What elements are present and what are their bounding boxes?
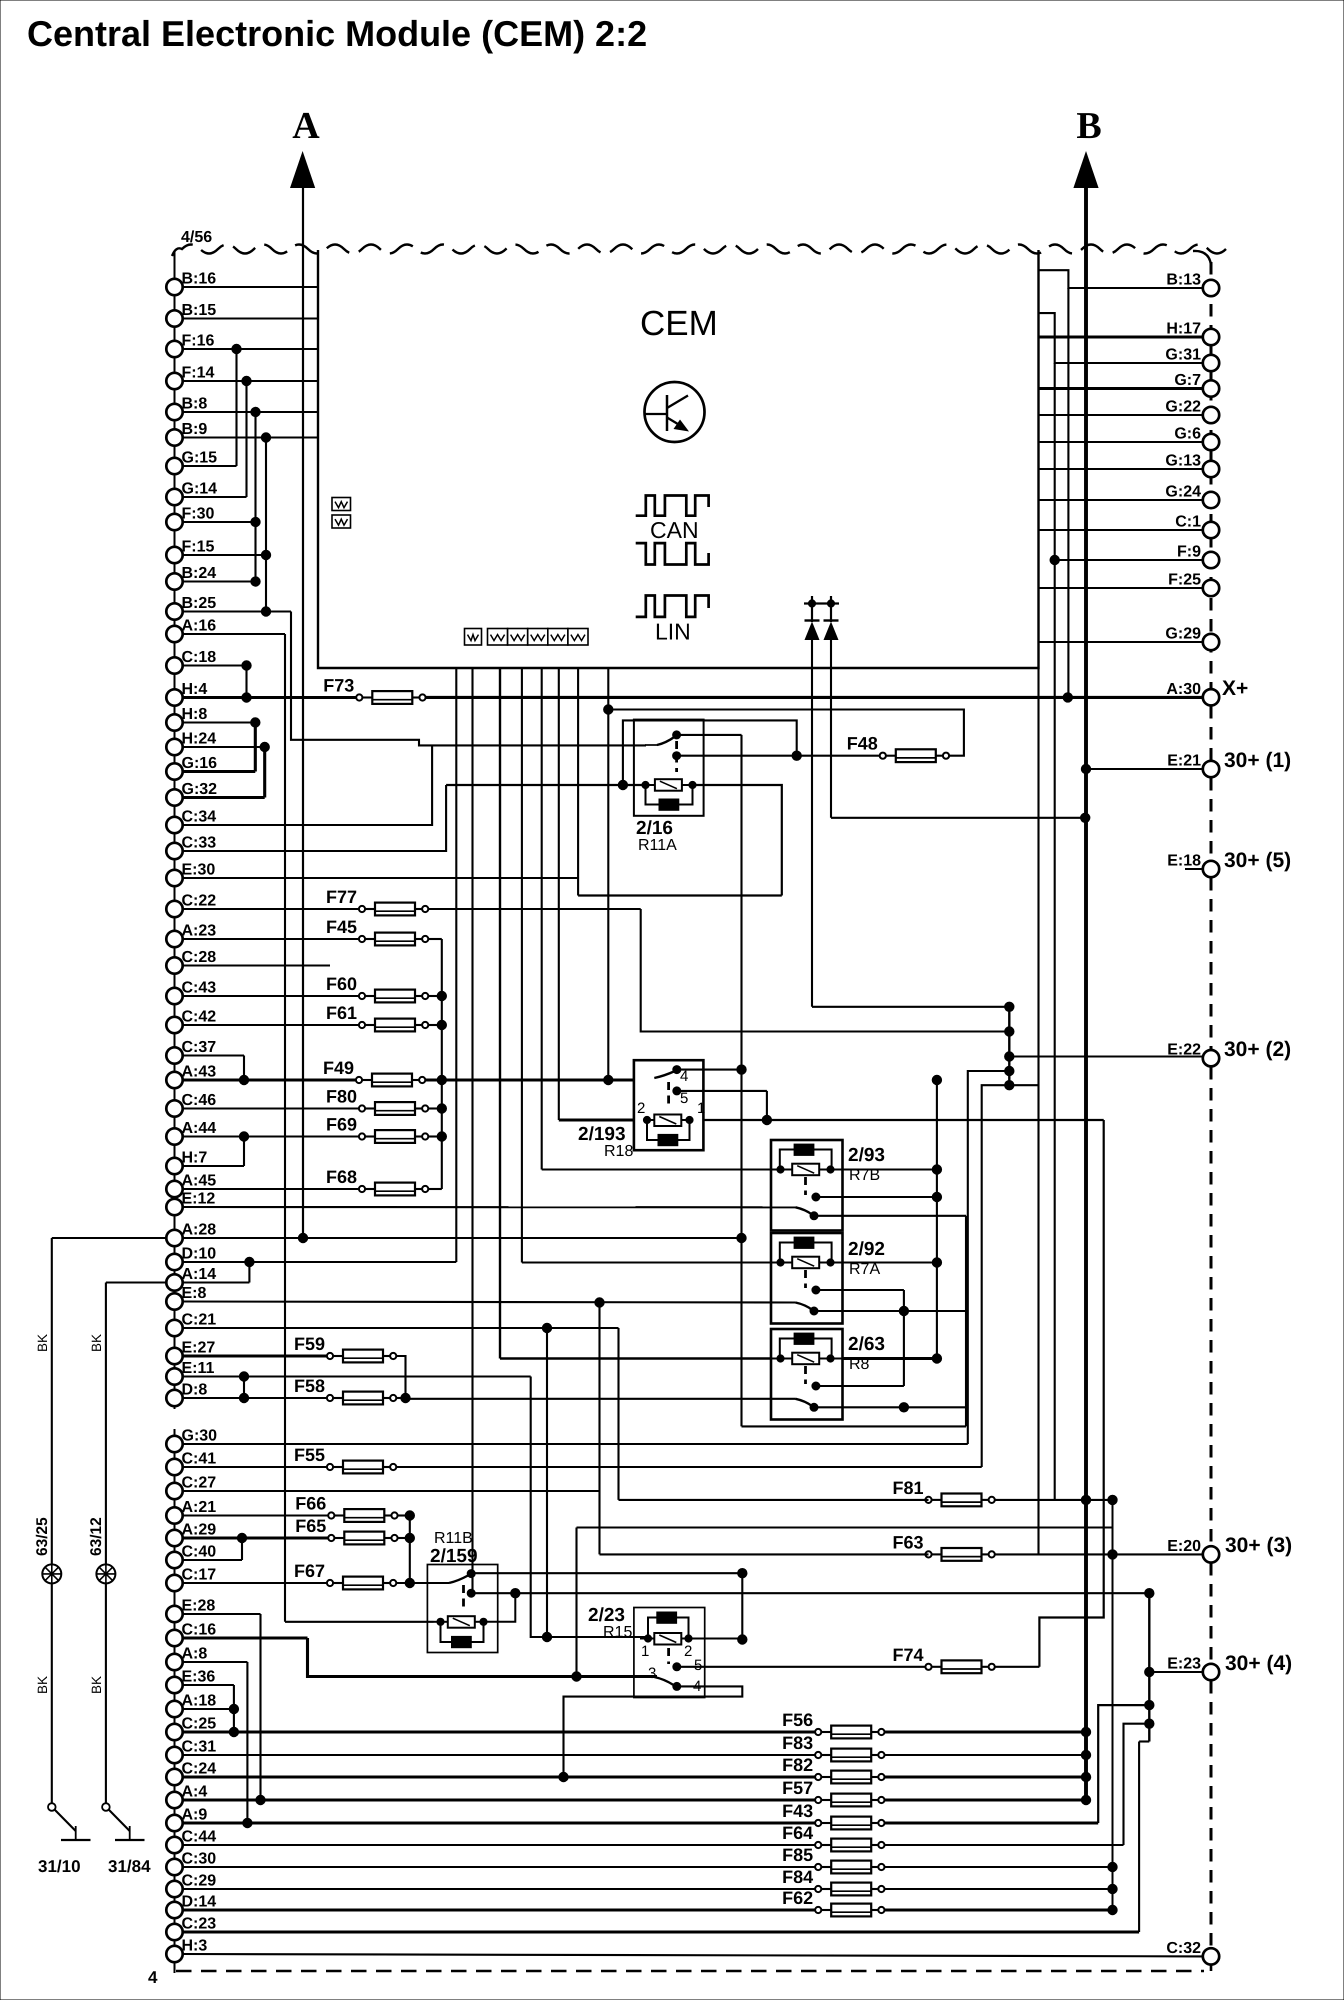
svg-text:F:9: F:9 — [1177, 544, 1201, 561]
svg-text:C:28: C:28 — [182, 949, 217, 966]
wire F63 input from E:8 and C:27 riser — [598, 1303, 600, 1555]
svg-text:A:28: A:28 — [182, 1222, 217, 1239]
wire E:21 to bus B — [1086, 768, 1203, 770]
svg-text:F82: F82 — [782, 1755, 813, 1775]
wire G:14 riser to F:14 — [183, 496, 247, 498]
relay 2/159 R11B — [427, 1565, 497, 1653]
svg-text:F64: F64 — [782, 1823, 813, 1843]
wire 2/63 coil to supply column — [843, 1357, 937, 1360]
svg-text:C:43: C:43 — [182, 980, 217, 997]
wire E:22 to 30+ (2) — [1009, 1055, 1203, 1057]
fuse F64 — [782, 1823, 884, 1851]
output icon row inside CEM — [465, 629, 589, 646]
wire G:32 riser to H:24 — [183, 796, 265, 799]
svg-text:B:16: B:16 — [182, 271, 217, 288]
wire CEM output bundle 7 to 2/16 coil right — [577, 668, 579, 896]
wire 2/92 plunger pin — [816, 1289, 904, 1291]
svg-text:CAN: CAN — [650, 517, 699, 543]
svg-text:B:24: B:24 — [182, 565, 217, 582]
wire B:13 from CEM — [1039, 270, 1204, 288]
svg-text:F:16: F:16 — [182, 333, 215, 350]
svg-text:E:36: E:36 — [182, 1669, 216, 1686]
svg-text:2/63: 2/63 — [848, 1334, 885, 1355]
relay 2/23 R15 — [634, 1608, 705, 1698]
wire 2/92 switch output — [814, 1310, 966, 1312]
wire 2/16 switch output to return bus — [677, 734, 742, 736]
svg-text:63/25: 63/25 — [34, 1517, 51, 1556]
wire D:10 to CEM output bundle — [183, 1261, 457, 1263]
wire C:30 to fuse F85 — [183, 1866, 819, 1868]
svg-text:BK: BK — [35, 1334, 50, 1352]
wire F83 output to bus B — [885, 1754, 1086, 1756]
bus B arrow and label — [1073, 105, 1101, 188]
wire G:15 riser to F:16 — [183, 465, 237, 467]
wire C:34 riser to 2/16 switch feed — [183, 745, 433, 825]
wire A:45 to fuse F68 — [183, 1188, 363, 1190]
svg-text:A:44: A:44 — [182, 1120, 217, 1137]
svg-text:F80: F80 — [326, 1087, 357, 1107]
svg-text:R7A: R7A — [849, 1261, 880, 1278]
wire A:8 riser to A:9 — [183, 1661, 248, 1663]
wire A:29 to fuse F65 — [183, 1536, 332, 1539]
svg-text:F73: F73 — [323, 676, 354, 696]
svg-text:B:13: B:13 — [1166, 272, 1201, 289]
wire 2/159 coil line from A:16 bus — [285, 1621, 434, 1623]
wire 2/193 pin 4 to return bus — [677, 1069, 742, 1071]
fuse F77 — [326, 887, 428, 915]
wire G:13 from CEM — [1039, 468, 1204, 470]
svg-text:31/84: 31/84 — [108, 1857, 151, 1876]
svg-text:G:6: G:6 — [1174, 426, 1201, 443]
svg-text:G:13: G:13 — [1165, 453, 1201, 470]
wire E:18 stub — [1185, 868, 1203, 870]
svg-text:C:33: C:33 — [182, 835, 217, 852]
wire A:44 to fuse F69 — [183, 1135, 363, 1137]
svg-text:2/159: 2/159 — [430, 1546, 478, 1567]
svg-text:30+ (4): 30+ (4) — [1225, 1652, 1292, 1675]
svg-text:C:30: C:30 — [182, 1851, 217, 1868]
wire E:36 riser to C:25 — [183, 1684, 234, 1686]
svg-text:F69: F69 — [326, 1115, 357, 1135]
wire D:8 to fuse F58 — [183, 1397, 331, 1399]
svg-text:F74: F74 — [892, 1645, 923, 1665]
wire 2/16 coil line — [446, 784, 646, 786]
wire right distribution vertical — [1054, 363, 1056, 1500]
wire A:43 to fuse F49 — [183, 1078, 360, 1081]
fuse F55 — [294, 1445, 396, 1473]
svg-text:G:16: G:16 — [182, 755, 218, 772]
svg-text:F:25: F:25 — [1168, 572, 1201, 589]
wire F:14 to CEM — [183, 380, 319, 382]
wire C:41 to fuse F55 — [183, 1466, 331, 1468]
svg-text:D:8: D:8 — [182, 1382, 208, 1399]
svg-text:2: 2 — [684, 1643, 692, 1660]
wire diode 1 drop to node column — [811, 640, 813, 1007]
svg-text:D:14: D:14 — [182, 1894, 217, 1911]
relay 2/193 R18 — [634, 1060, 704, 1150]
wire 2/193 pin 2 to CEM bundle — [559, 1118, 634, 1121]
wire F81 output to bus B — [995, 1499, 1113, 1501]
wire G:6 from CEM — [1039, 441, 1204, 443]
wire F56 output to bus B — [885, 1730, 1086, 1733]
wire relay return bus bottom — [742, 1425, 967, 1427]
wire B:9 to CEM — [183, 436, 319, 438]
wire B:8 to CEM — [183, 411, 319, 413]
wire CEM output bundle 4 to relay 2/92 coil — [521, 668, 523, 1263]
fuse F67 — [294, 1561, 396, 1589]
svg-text:H:3: H:3 — [182, 1938, 208, 1955]
wire 2/193 pin 1 to fuse F74 feed — [703, 1119, 1103, 1121]
svg-text:C:40: C:40 — [182, 1544, 217, 1561]
svg-text:F45: F45 — [326, 917, 357, 937]
wire F43 output — [885, 1821, 1099, 1824]
fuse F85 — [782, 1845, 884, 1873]
splice 63/12 — [88, 1517, 115, 1583]
wire A:16 to relay 2/159 coil — [183, 633, 286, 635]
wire CEM output bundle 6 to relay 2/193 pin 2 — [558, 668, 560, 1120]
wire A:14 to ground riser 63/12 — [106, 1281, 167, 1283]
svg-text:C:31: C:31 — [182, 1739, 217, 1756]
wire F:9 junction — [1055, 559, 1203, 561]
svg-text:E:28: E:28 — [182, 1598, 216, 1615]
wire 30+ (3) distribution vertical — [1112, 1500, 1114, 1910]
wire A:4 to fuse F57 — [183, 1798, 819, 1801]
svg-text:C:27: C:27 — [182, 1475, 217, 1492]
svg-text:30+ (1): 30+ (1) — [1224, 749, 1291, 772]
wire F:30 on B:8 riser — [183, 521, 256, 523]
svg-text:BK: BK — [89, 1334, 104, 1352]
wire 2/23 pin 5 to fuse F74 — [677, 1666, 929, 1668]
svg-text:C:17: C:17 — [182, 1567, 217, 1584]
wire plunger collector — [903, 1290, 905, 1386]
wire C:23 top link — [1139, 1740, 1149, 1742]
wire G:24 from CEM — [1039, 499, 1204, 501]
svg-text:Central Electronic Module (CEM: Central Electronic Module (CEM) 2:2 — [27, 13, 647, 54]
wire C:42 to fuse F61 — [183, 1024, 363, 1026]
svg-text:A:9: A:9 — [182, 1807, 208, 1824]
wire C:29 to fuse F84 — [183, 1888, 819, 1890]
fuse F66 — [295, 1494, 397, 1522]
svg-text:B:8: B:8 — [182, 396, 208, 413]
wire E:12 to relay 2/93 switch — [183, 1206, 796, 1208]
svg-text:R15: R15 — [603, 1624, 632, 1641]
svg-text:H:4: H:4 — [182, 681, 208, 698]
wire C:44 to fuse F64 — [183, 1844, 819, 1846]
wire F49 output to relay 2/193 — [425, 1078, 634, 1081]
fuse F68 — [326, 1167, 428, 1195]
wire F:25 from CEM — [1039, 587, 1204, 589]
wire F65 output — [398, 1537, 410, 1539]
wire F63 output to E:20 — [995, 1553, 1203, 1555]
svg-text:30+ (2): 30+ (2) — [1224, 1038, 1291, 1061]
right connector pins of 4/56 — [1165, 272, 1219, 1965]
svg-text:E:27: E:27 — [182, 1340, 216, 1357]
svg-text:G:24: G:24 — [1165, 484, 1201, 501]
wire F66 output bus — [398, 1514, 410, 1516]
svg-text:A:21: A:21 — [182, 1499, 217, 1516]
wire 2/93 plunger pin — [816, 1196, 937, 1198]
svg-text:F58: F58 — [294, 1376, 325, 1396]
svg-text:2: 2 — [637, 1100, 645, 1117]
wire C:1 from CEM — [1039, 529, 1204, 531]
wire diode 2 drop to bus B — [830, 640, 832, 818]
fuse F61 — [326, 1003, 428, 1031]
wire A:23 to fuse F45 — [183, 938, 363, 940]
wire C:24 to fuse F82 — [183, 1775, 819, 1778]
svg-text:2/23: 2/23 — [588, 1605, 625, 1626]
wire C:43 to fuse F60 — [183, 995, 363, 997]
svg-text:2/16: 2/16 — [636, 818, 673, 839]
wire F60 output — [428, 995, 441, 997]
svg-text:F85: F85 — [782, 1845, 813, 1865]
svg-text:F48: F48 — [847, 734, 878, 754]
wire C:31 to fuse F83 — [183, 1754, 819, 1756]
wire E:8 to relay 2/92 switch — [183, 1302, 796, 1303]
svg-text:C:32: C:32 — [1166, 1940, 1201, 1957]
bus A arrow and label — [290, 105, 320, 188]
svg-text:H:8: H:8 — [182, 706, 208, 723]
relay 2/92 R7A — [771, 1233, 843, 1324]
wire H:3 to C:32 — [183, 1954, 1204, 1956]
wire C:37 riser to A:43 — [183, 1054, 245, 1056]
svg-text:G:14: G:14 — [182, 481, 218, 498]
svg-text:C:25: C:25 — [182, 1716, 217, 1733]
wire H:7 riser to A:44 — [183, 1165, 245, 1167]
svg-text:E:30: E:30 — [182, 862, 216, 879]
dashed bottom boundary — [176, 1970, 1204, 1973]
svg-text:C:42: C:42 — [182, 1009, 217, 1026]
svg-text:F77: F77 — [326, 887, 357, 907]
fuse F43 — [782, 1801, 884, 1829]
fuse F69 — [326, 1115, 428, 1143]
svg-text:30+ (5): 30+ (5) — [1224, 849, 1291, 872]
svg-text:C:41: C:41 — [182, 1451, 217, 1468]
fuse F59 — [294, 1334, 396, 1362]
wire 2/159 switch output to 2/23 coil — [471, 1572, 742, 1574]
svg-text:C:46: C:46 — [182, 1092, 217, 1109]
wire F64 output — [885, 1844, 1124, 1846]
svg-text:F55: F55 — [294, 1445, 325, 1465]
svg-text:G:7: G:7 — [1174, 372, 1201, 389]
wire 2/23 pin 4 output — [564, 1686, 743, 1777]
svg-text:H:24: H:24 — [182, 731, 217, 748]
wire H:17 from CEM — [1039, 335, 1204, 338]
wire E:11 to 2/23 coil feed — [183, 1375, 531, 1377]
ground switch 31/84 — [102, 1803, 144, 1840]
svg-text:F57: F57 — [782, 1778, 813, 1798]
svg-text:B:15: B:15 — [182, 302, 217, 319]
fuse F60 — [326, 974, 428, 1002]
svg-text:A:18: A:18 — [182, 1693, 217, 1710]
svg-text:G:29: G:29 — [1165, 626, 1201, 643]
svg-text:F49: F49 — [323, 1058, 354, 1078]
svg-text:R18: R18 — [604, 1143, 633, 1160]
svg-text:G:31: G:31 — [1165, 347, 1201, 364]
svg-text:C:44: C:44 — [182, 1829, 217, 1846]
svg-text:A:29: A:29 — [182, 1522, 217, 1539]
svg-text:F43: F43 — [782, 1801, 813, 1821]
diode pair inside CEM — [804, 596, 839, 640]
svg-text:CEM: CEM — [640, 304, 718, 343]
svg-text:F63: F63 — [892, 1532, 923, 1552]
wire C:28 stub — [183, 964, 331, 966]
dashed right boundary — [1210, 262, 1213, 688]
svg-text:R11A: R11A — [638, 837, 677, 854]
wire vertical to X+ junction — [1067, 288, 1069, 697]
wire CEM output bundle 1 to C:28 and D:10 — [455, 668, 457, 1262]
wire F81 input — [619, 1499, 929, 1501]
input icon box 1 inside CEM — [332, 498, 351, 511]
wire H:8 junction — [183, 721, 256, 723]
svg-text:A:23: A:23 — [182, 923, 217, 940]
svg-text:2/93: 2/93 — [848, 1145, 885, 1166]
wire CEM output bundle 2 to relay 2/159 plunger — [471, 668, 473, 1593]
fuse F82 — [782, 1755, 884, 1783]
wire H:4 to fuse F73 — [183, 696, 360, 699]
wire C:18 riser to H:4 — [183, 664, 247, 666]
left connector pins of 4/56 — [166, 271, 217, 1963]
wire F62 output — [885, 1908, 1113, 1911]
wire E:28 riser to A:4 — [183, 1613, 261, 1615]
CAN bus symbol — [636, 496, 709, 565]
svg-text:F62: F62 — [782, 1888, 813, 1908]
fuse F80 — [326, 1087, 428, 1115]
wire fuse F77 output to node column — [428, 908, 640, 910]
fuse F65 — [295, 1516, 397, 1544]
ground wire 63/12 column — [105, 1283, 107, 1805]
wire F82 output to bus B — [885, 1775, 1086, 1778]
svg-text:C:37: C:37 — [182, 1039, 217, 1056]
wire 2/93 coil to supply column — [843, 1168, 937, 1170]
svg-text:F56: F56 — [782, 1710, 813, 1730]
svg-text:F81: F81 — [892, 1478, 923, 1498]
wire F84 output — [885, 1888, 1113, 1890]
svg-text:H:7: H:7 — [182, 1150, 208, 1167]
wire riser to 2/23 coil feed — [542, 1323, 551, 1332]
wire CEM corner drop — [1037, 668, 1039, 1554]
wire CEM output bundle 5 to relay 2/93 coil — [541, 668, 543, 1170]
wire G:29 from CEM — [1039, 641, 1204, 643]
svg-text:A:16: A:16 — [182, 618, 217, 635]
wire 2/63 coil feed from CEM — [500, 1357, 771, 1359]
svg-text:E:11: E:11 — [182, 1360, 215, 1377]
wire F43 riser — [1098, 1705, 1149, 1823]
wire C:16 riser to 30+ (3) rail — [575, 1528, 577, 1677]
wire CEM output bundle 8 to X+ node — [607, 668, 609, 1080]
wire 2/159 plunger line to 30+ (4) rail — [471, 1592, 1149, 1594]
svg-text:A:14: A:14 — [182, 1266, 217, 1283]
svg-text:A:8: A:8 — [182, 1646, 208, 1663]
splice 63/25 — [34, 1517, 61, 1584]
svg-text:B:25: B:25 — [182, 595, 217, 612]
svg-text:E:18: E:18 — [1167, 853, 1201, 870]
svg-text:E:21: E:21 — [1167, 753, 1201, 770]
svg-text:5: 5 — [694, 1657, 702, 1674]
wire C:33 riser to 2/16 coil line — [183, 785, 447, 851]
input icon box 2 inside CEM — [332, 515, 351, 528]
wire F58 output to relay 2/63 switch — [396, 1397, 405, 1399]
svg-text:31/10: 31/10 — [38, 1857, 81, 1876]
wire coil jog to F48 line — [623, 720, 797, 785]
wire 2/159 coil right riser — [484, 1593, 516, 1622]
svg-text:30+ (3): 30+ (3) — [1225, 1534, 1292, 1557]
wire 2/23 coil right to 2/159 output riser — [696, 1637, 742, 1639]
svg-text:4: 4 — [148, 1968, 158, 1987]
wire B:15 to CEM — [183, 317, 319, 319]
svg-text:4/56: 4/56 — [181, 229, 212, 246]
svg-text:H:17: H:17 — [1166, 321, 1201, 338]
wire 2/193 pin 5 drop — [677, 1090, 767, 1092]
wire F80 output — [428, 1107, 441, 1109]
wire F48 output riser to X+ node — [608, 710, 964, 756]
svg-text:G:22: G:22 — [1165, 399, 1201, 416]
wire B:16 to CEM — [183, 286, 319, 288]
svg-text:F65: F65 — [295, 1516, 326, 1536]
svg-text:F59: F59 — [294, 1334, 325, 1354]
wire A:18 junction — [183, 1708, 234, 1710]
svg-text:C:16: C:16 — [182, 1622, 217, 1639]
wire 2/16 coil right riser — [693, 785, 782, 896]
svg-text:F:14: F:14 — [182, 365, 215, 382]
fuse F62 — [782, 1888, 884, 1916]
wire C:27 to fuse F63 feed riser — [183, 1490, 600, 1492]
wire F57 output to bus B — [885, 1798, 1086, 1801]
wire A:21 to fuse F66 — [183, 1514, 332, 1516]
wire B:25 to 2/16 switch feed — [183, 610, 292, 612]
fuse F58 — [294, 1376, 396, 1404]
fuse F73 — [323, 676, 425, 704]
svg-text:5: 5 — [680, 1090, 688, 1107]
svg-text:F84: F84 — [782, 1867, 813, 1887]
svg-text:E:23: E:23 — [1167, 1656, 1201, 1673]
fuse F84 — [782, 1867, 884, 1895]
wire F74 output — [995, 1666, 1040, 1668]
wire 2/92 coil to supply column — [843, 1261, 937, 1263]
svg-text:A:43: A:43 — [182, 1064, 217, 1081]
fuse F45 — [326, 917, 428, 945]
wire B:24 end of riser — [183, 580, 256, 582]
wire E:23 stub — [1149, 1671, 1203, 1673]
wire D:14 to fuse F62 — [183, 1908, 819, 1911]
svg-text:C:22: C:22 — [182, 893, 217, 910]
wire 2/93 switch output — [814, 1215, 966, 1217]
svg-text:E:20: E:20 — [1167, 1538, 1201, 1555]
svg-text:C:24: C:24 — [182, 1761, 217, 1778]
svg-text:B:9: B:9 — [182, 421, 208, 438]
transistor symbol inside CEM — [645, 382, 705, 442]
wire F61 output — [428, 1024, 441, 1026]
fuse F56 — [782, 1710, 884, 1738]
wire A:9 to fuse F43 — [183, 1821, 819, 1824]
wire C:21 riser to fuse F81 — [183, 1327, 619, 1329]
svg-text:C:1: C:1 — [1175, 514, 1201, 531]
wire F69 output — [428, 1135, 441, 1137]
svg-text:F66: F66 — [295, 1494, 326, 1514]
svg-text:F60: F60 — [326, 974, 357, 994]
LIN bus symbol — [636, 596, 709, 645]
svg-text:C:23: C:23 — [182, 1916, 217, 1933]
wire H:24 junction — [183, 746, 265, 748]
wire G:31 from CEM — [1039, 313, 1204, 363]
svg-text:A: A — [292, 105, 320, 147]
wire bus A vertical — [302, 186, 304, 1238]
svg-text:D:10: D:10 — [182, 1246, 217, 1263]
wire 2/63 switch output — [814, 1406, 966, 1408]
svg-text:2/92: 2/92 — [848, 1239, 885, 1260]
wire A:28 to ground riser and relay return bus — [52, 1237, 167, 1239]
fuse F49 — [323, 1058, 425, 1086]
svg-text:B: B — [1076, 105, 1101, 147]
